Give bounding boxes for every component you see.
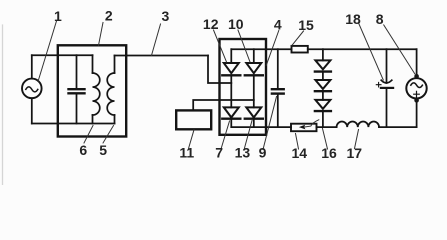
leader 12 [214,30,227,62]
wire: left top rail [32,54,93,56]
svg-text:5: 5 [99,142,107,158]
arrow in resistor 14 [304,120,319,127]
plus of capacitor 18 [376,82,381,87]
leader 9 [263,97,277,150]
svg-text:17: 17 [347,145,363,161]
wire col2 bottom [253,119,255,127]
leader 5 [103,126,114,144]
svg-text:1: 1 [54,8,62,24]
resistor 15 [292,46,308,53]
leader 18 [359,24,384,80]
wire col2 mid [253,75,255,107]
leader 3 [152,24,161,55]
control box 11 [176,110,211,129]
svg-text:18: 18 [345,11,361,27]
leader 13 [245,121,253,149]
svg-text:8: 8 [376,11,384,27]
bottom output rail [231,126,291,128]
svg-text:9: 9 [259,144,267,160]
wire: box 11 riser [193,100,254,110]
svg-text:7: 7 [215,144,223,160]
diode 7 [224,107,239,117]
diode chain 16 lead [322,49,324,60]
leader 11 [189,130,195,149]
svg-text:12: 12 [203,16,219,32]
capacitor 6 [76,55,78,89]
svg-text:2: 2 [105,8,113,24]
capacitor 9 [277,49,279,89]
leader 2 [99,23,104,46]
svg-text:13: 13 [235,144,251,160]
wire col1 bottom [230,119,232,127]
wire: left bottom rail [32,123,115,125]
scan edge artifact [2,25,4,185]
top output rail [231,48,291,50]
svg-text:6: 6 [79,142,87,158]
leader 17 [355,130,359,149]
column 1 lead [230,49,232,63]
chain diode b [315,80,330,89]
inductor 17 [337,121,379,127]
diode 12 [224,63,239,73]
svg-text:11: 11 [179,144,194,160]
svg-text:14: 14 [292,145,308,161]
leader 15 [292,31,304,46]
leader 8 [384,25,415,74]
svg-text:15: 15 [298,17,314,33]
chain diode c [315,100,330,109]
leader 10 [238,30,250,62]
chain diode a [315,60,330,69]
leader 1 [38,21,57,82]
wire: source bottom lead [31,98,33,123]
capacitor 18 [386,49,388,83]
machine 8 [416,49,418,74]
diode 10 [246,63,261,73]
primary winding 6/5 left coil [92,55,94,73]
wire: bend down to bridge input [208,56,231,84]
wire: source top lead [31,55,33,78]
svg-text:4: 4 [274,17,282,33]
leader 4 [266,31,279,66]
svg-text:3: 3 [162,8,170,24]
wire col1 mid [230,75,232,107]
bridge box 4 [220,39,267,135]
secondary winding right coil [114,56,116,74]
svg-text:10: 10 [228,16,244,32]
svg-text:16: 16 [321,145,337,161]
leader 16 [323,129,328,150]
leader 6 [84,126,93,144]
diode 13 [246,107,261,117]
resistor 14 [291,124,317,132]
leader 14 [296,134,299,150]
box unit 2 [58,45,126,136]
wire 3: secondary to bridge [115,55,209,57]
column 2 lead [253,49,255,63]
leader 7 [221,121,230,149]
AC source G1 [22,79,42,99]
